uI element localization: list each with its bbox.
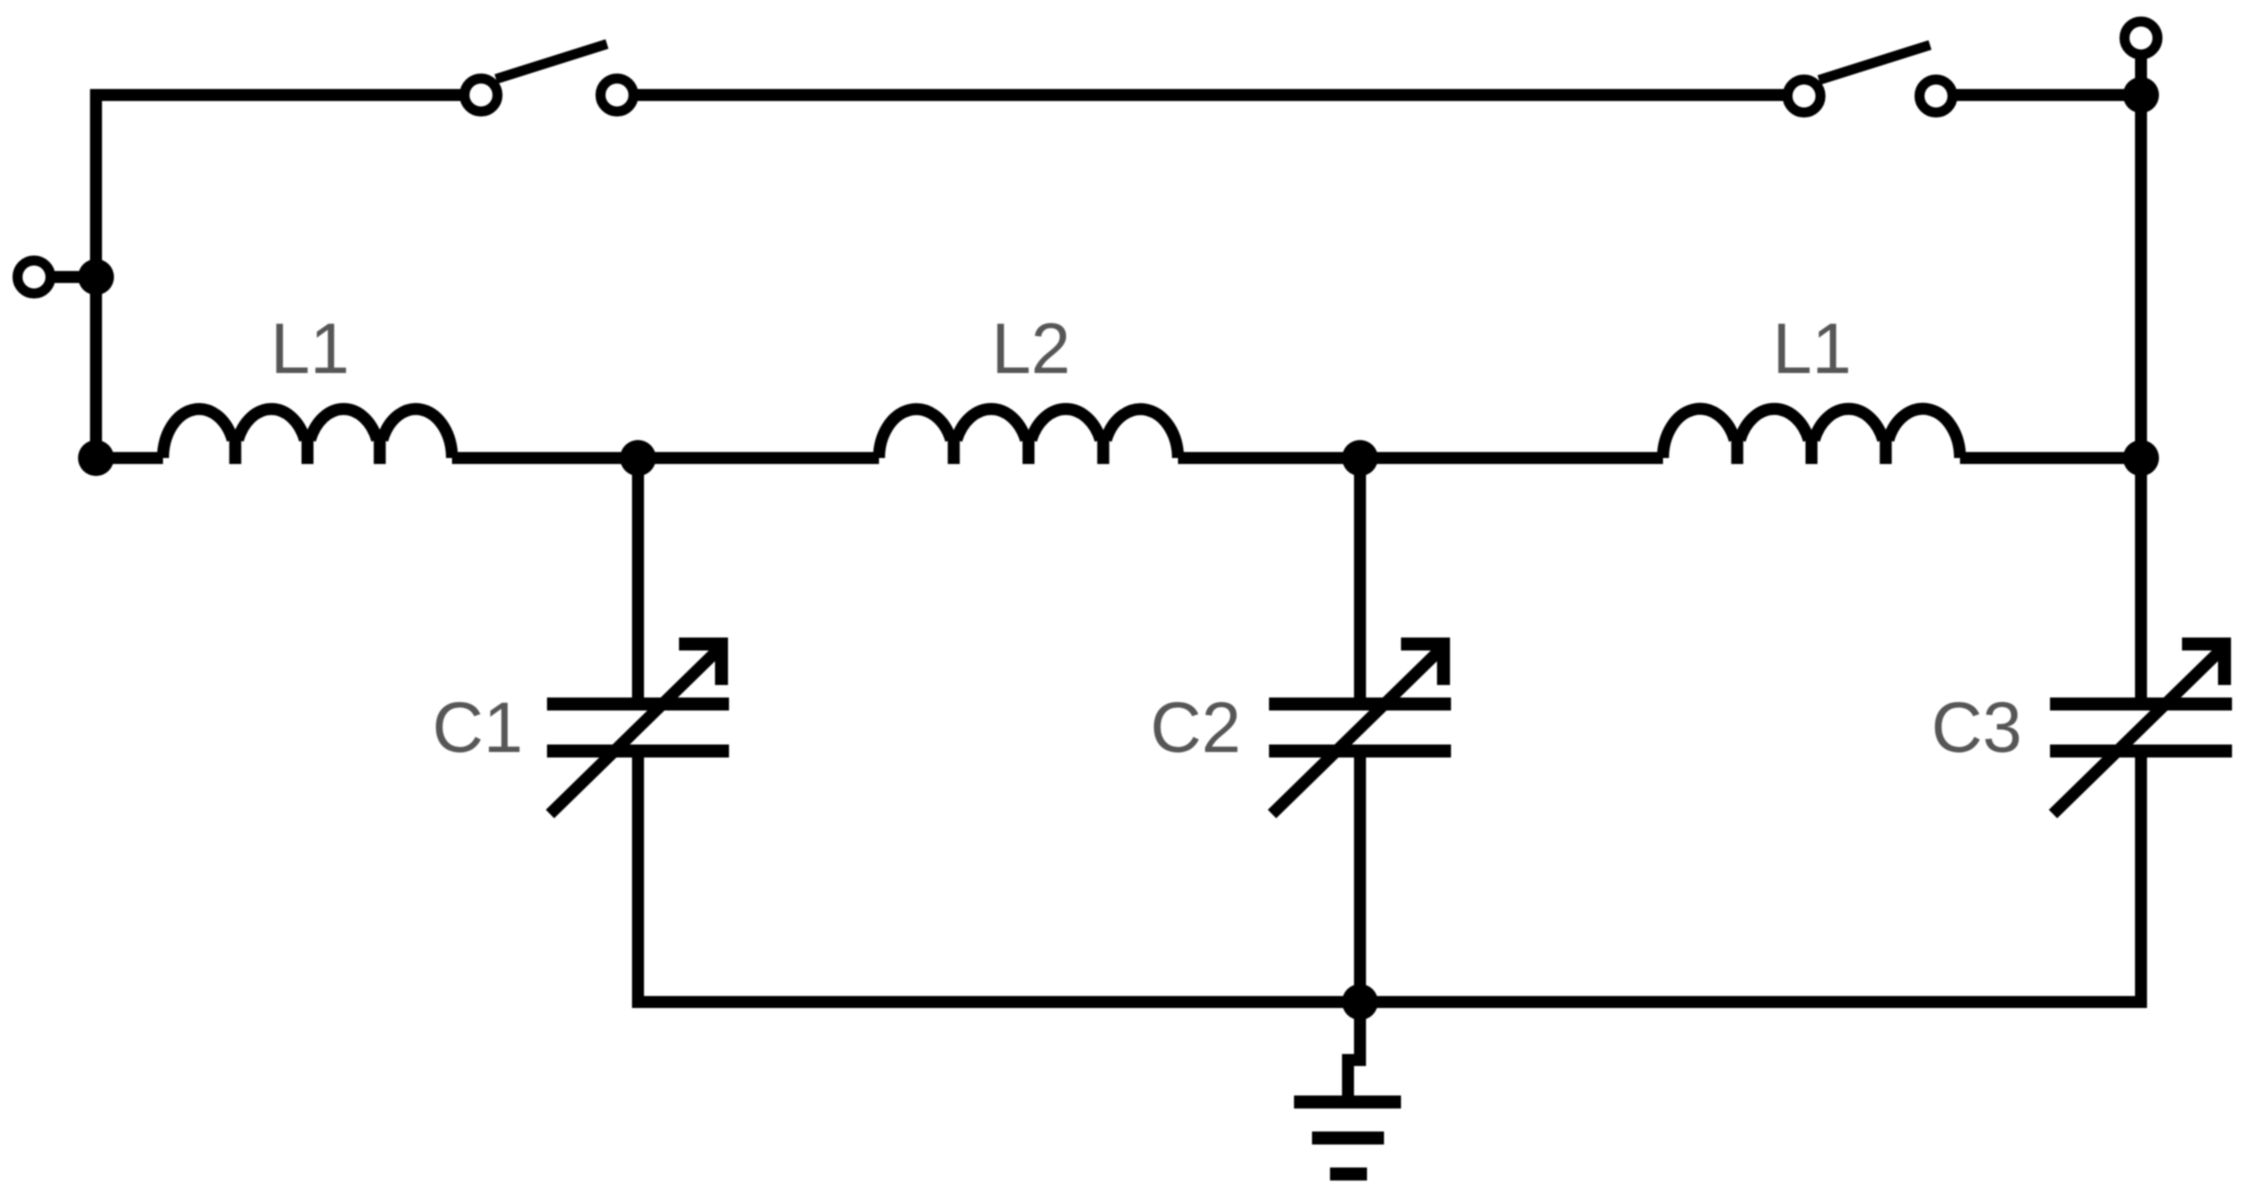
wire: main horizontal line segment 3 — [1178, 452, 1663, 464]
wire: main horizontal line segment 1 — [96, 452, 163, 464]
capacitor C2 top wire — [1354, 458, 1366, 698]
capacitor C2 plates — [1269, 698, 1451, 711]
capacitor C1 arrow — [550, 646, 722, 814]
wire: C2 lower wire — [1354, 751, 1366, 1002]
switch SW1 blade — [496, 44, 607, 79]
capacitor C2 arrow — [1272, 646, 1444, 814]
switch SW1 right contact — [601, 79, 634, 112]
wire: main horizontal line segment 4 — [1960, 452, 2141, 464]
junction node at left terminal — [78, 259, 114, 295]
ground bar 3 — [1330, 1168, 1367, 1181]
capacitor C1 top wire — [632, 458, 644, 698]
switch SW2 left contact — [1788, 80, 1821, 113]
capacitor C3 arrow — [2053, 646, 2225, 814]
wire: left terminal stub — [51, 271, 96, 283]
svg-text:C2: C2 — [1150, 689, 1241, 768]
switch SW1 left contact — [465, 79, 498, 112]
inductor L2 — [879, 409, 1178, 458]
junction node C2 — [1342, 440, 1378, 476]
svg-text:L1: L1 — [1773, 310, 1852, 389]
switch SW2 blade — [1819, 45, 1930, 80]
wire: top right segment to right rail — [1953, 89, 2141, 101]
inductor L1 (right) — [1663, 409, 1960, 458]
ground bar 1 — [1294, 1096, 1401, 1109]
junction node ground — [1342, 984, 1378, 1020]
ground bar 2 — [1312, 1132, 1384, 1145]
terminal top right — [2125, 22, 2158, 55]
capacitor C1 plates — [547, 698, 729, 711]
junction node main line right — [2123, 440, 2159, 476]
wire: main horizontal line segment 2 — [452, 452, 879, 464]
svg-text:L1: L1 — [271, 310, 350, 389]
terminal left input — [18, 261, 51, 294]
junction node main line left — [78, 440, 114, 476]
switch SW2 right contact — [1920, 80, 1953, 113]
inductor L1 (left) — [163, 409, 452, 458]
wire: top middle segment between switches — [634, 89, 1787, 101]
junction node top right — [2123, 77, 2159, 113]
svg-text:L2: L2 — [992, 310, 1071, 389]
wire: left rail and top-left segment — [96, 95, 464, 458]
wire: right rail from top terminal down to C3 top plate — [2135, 55, 2147, 698]
svg-text:C1: C1 — [432, 689, 523, 768]
junction node C1 — [620, 440, 656, 476]
wire: C1 lower wire, bottom wire, C3 lower wire — [638, 751, 2141, 1002]
ground stem — [1348, 1002, 1360, 1096]
capacitor C3 plates — [2050, 698, 2232, 711]
svg-text:C3: C3 — [1931, 689, 2022, 768]
